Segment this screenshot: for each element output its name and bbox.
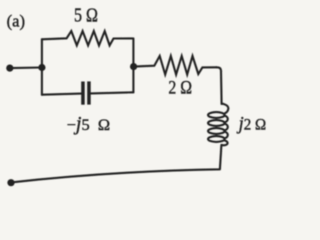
- wire: [132, 38, 134, 92]
- capacitor C1: [81, 81, 91, 104]
- resistor R1 5 ohm: [42, 31, 133, 45]
- wire: [42, 94, 81, 95]
- wire: [11, 145, 221, 182]
- svg-text:2 Ω: 2 Ω: [168, 78, 192, 99]
- wire: [41, 39, 43, 94]
- inductor L1: [208, 104, 228, 146]
- svg-text:5 Ω: 5 Ω: [74, 5, 98, 27]
- wire: [10, 66, 42, 69]
- wire: [91, 92, 133, 93]
- node J2: [130, 63, 137, 70]
- resistor R2 2 ohm: [134, 56, 217, 75]
- svg-text:j2 Ω: j2 Ω: [236, 113, 266, 134]
- svg-text:(a): (a): [7, 11, 25, 30]
- svg-text:−j5 Ω: −j5 Ω: [67, 114, 111, 135]
- terminal node bottom-left: [7, 179, 14, 186]
- node J1: [38, 64, 45, 71]
- wire: [217, 67, 222, 104]
- terminal node top-left: [6, 65, 13, 72]
